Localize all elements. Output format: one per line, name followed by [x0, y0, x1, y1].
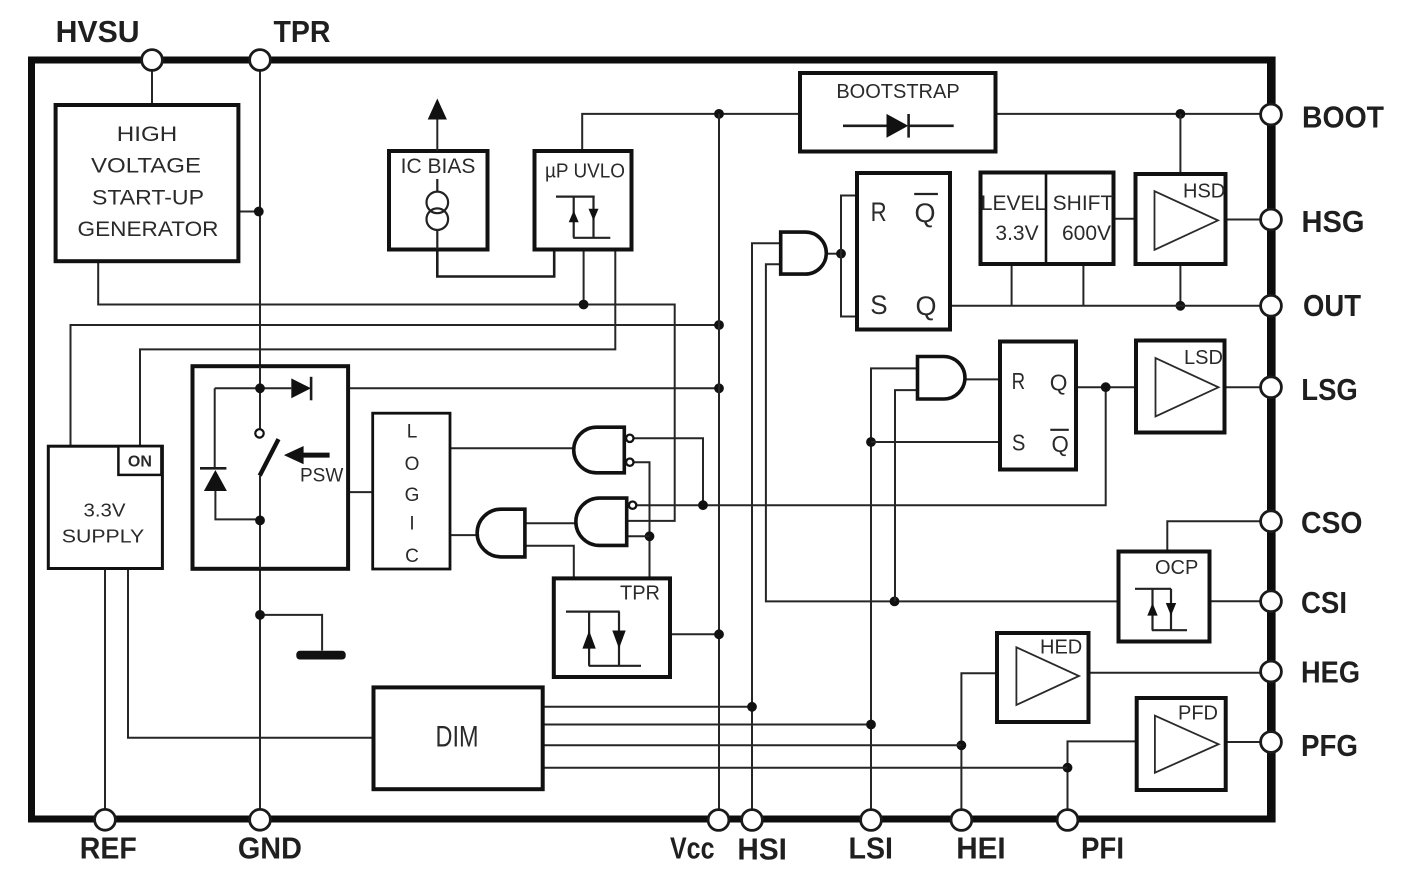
svg-text:TPR: TPR: [274, 14, 331, 49]
node: junction TPR output / Vcc vertical: [714, 629, 724, 639]
node: junction PFI vertical / DIM wire 4: [1063, 763, 1073, 773]
svg-text:LSI: LSI: [849, 831, 894, 866]
svg-text:OCP: OCP: [1155, 557, 1198, 579]
switch PSW: [255, 429, 263, 437]
wire: uP UVLO top to BOOTSTRAP input and BOOT line: [582, 114, 800, 151]
wire: DIM output 4 to PFI vertical: [543, 767, 1068, 769]
svg-text:PFD: PFD: [1178, 703, 1218, 725]
pin LSG: [1261, 372, 1358, 407]
svg-text:I: I: [409, 514, 414, 535]
svg-text:Q: Q: [916, 291, 937, 321]
wire: SHIFT to HSD: [1114, 218, 1136, 220]
svg-text:Q: Q: [915, 198, 936, 228]
wire: HEI pin vertical up to HED input: [961, 673, 997, 810]
node: junction DIM wire2 / LSI vertical: [866, 720, 876, 730]
pin REF: [80, 809, 137, 865]
op-amp buffer HED: [997, 633, 1089, 722]
diode D2: [843, 125, 954, 128]
svg-text:HIGH: HIGH: [117, 123, 178, 146]
wire: DIM output 2 to LSI vertical: [543, 724, 871, 726]
current source I1: [436, 179, 438, 192]
wire: PFD output to PFG pin: [1226, 741, 1261, 743]
svg-text:HSI: HSI: [737, 832, 787, 867]
wire: 3.3V supply to DIM input: [128, 569, 374, 738]
svg-text:HEG: HEG: [1301, 655, 1360, 690]
wire: LSD output to LSG pin: [1225, 386, 1262, 388]
svg-text:PFG: PFG: [1301, 728, 1358, 763]
wire: HED output to HEG pin: [1089, 672, 1262, 674]
block: 3.3V SUPPLY: [48, 446, 162, 568]
IC package border frame: [32, 60, 1273, 819]
svg-text:PFI: PFI: [1081, 831, 1124, 866]
wire: HSD bottom to OUT line: [1179, 264, 1181, 306]
gate: AND2: [918, 357, 965, 400]
pin HVSU: [56, 14, 163, 70]
svg-text:DIM: DIM: [436, 721, 479, 754]
gate: AND3: [781, 232, 827, 274]
wire: HVSU pin to generator: [151, 70, 153, 105]
svg-text:VOLTAGE: VOLTAGE: [91, 154, 201, 177]
node: junction uP UVLO / net A: [579, 300, 589, 310]
wire: AND2 input 2 vertical tap of net E: [895, 390, 918, 601]
pin CSI: [1261, 585, 1347, 620]
wire: DIM output 1 to HSI vertical: [543, 706, 752, 708]
node: junction BOOT wire / HSD top: [1176, 109, 1186, 119]
svg-text:G: G: [405, 485, 420, 506]
diode D1: [215, 387, 292, 389]
node: junction NAND2 lower pin / NAND1 bubble2 line: [645, 531, 655, 541]
svg-text:BOOT: BOOT: [1302, 100, 1384, 135]
svg-text:R: R: [871, 197, 887, 227]
node: junction zener return / GND net: [255, 516, 265, 526]
wire: ground branch from GND net: [260, 615, 322, 651]
wire: TPR/GND vertical net: [259, 70, 261, 429]
wire: NAND2 bubble output long run to LSD input node: [636, 387, 1106, 505]
block: HIGH VOLTAGE START-UP GENERATOR: [56, 105, 239, 261]
svg-text:Vcc: Vcc: [670, 831, 715, 866]
op-amp buffer PFD: [1137, 698, 1226, 790]
svg-text:S: S: [870, 290, 887, 320]
wire: uP UVLO bottom to net A: [583, 250, 585, 305]
wire: FF2 Q output to LSD input: [1076, 386, 1136, 388]
wire: DIM output 3 to HEI vertical: [543, 744, 962, 746]
node: junction OUT wire / HSD bottom: [1176, 301, 1186, 311]
wire: PSW diode output to Vcc vertical (net D): [348, 387, 719, 389]
wire: LOGIC to AND4 input: [450, 534, 478, 536]
wire: generator bottom to NAND2 right input (net A): [98, 261, 675, 521]
wire: AND4 bottom output to TPR top: [525, 546, 574, 579]
svg-text:R: R: [1012, 368, 1026, 394]
block: IC BIAS: [389, 99, 488, 250]
pin LSI: [849, 810, 894, 866]
zener diode Z1: [214, 388, 216, 467]
node: junction AND2 input2 tap / net E: [890, 597, 900, 607]
op-amp buffer HSD: [1136, 174, 1226, 264]
pin HEI: [951, 810, 1006, 866]
pin GND: [238, 809, 302, 865]
pin Vcc: [670, 810, 729, 866]
wire: 3.3V supply to REF pin: [104, 569, 106, 811]
svg-text:CSI: CSI: [1301, 585, 1347, 620]
wire: ON box top to uP UVLO bottom (net C): [140, 250, 615, 447]
svg-text:HSG: HSG: [1302, 204, 1365, 239]
block: PSW power switch: [193, 366, 349, 569]
arrow: IC BIAS output up: [436, 112, 438, 151]
wire: AND3 output to FF1 bracket: [826, 253, 841, 255]
wire: CSI net, AND3 input 2 down and across to OCP (net E): [766, 264, 1119, 601]
block: LEVEL 3.3V / SHIFT 600V: [981, 173, 1114, 265]
svg-text:TPR: TPR: [620, 583, 660, 605]
block: TPR comparator: [554, 578, 670, 677]
block: uP UVLO: [535, 151, 632, 250]
pin PFG: [1261, 728, 1358, 763]
pin TPR: [250, 14, 331, 70]
node: junction GND vertical / ground branch: [255, 610, 265, 620]
svg-text:LSD: LSD: [1184, 347, 1223, 369]
gate: NAND2 (mirrored, one inverted pin): [576, 498, 636, 545]
svg-text:SUPPLY: SUPPLY: [62, 527, 145, 547]
block: OCP: [1119, 552, 1210, 642]
svg-text:µP UVLO: µP UVLO: [545, 161, 625, 183]
svg-text:HVSU: HVSU: [56, 14, 140, 49]
gate: AND4 (mirrored): [477, 509, 525, 557]
svg-text:600V: 600V: [1062, 222, 1111, 245]
arrow: PSW actuator: [284, 446, 304, 464]
wire: NAND2 lower right pin: [627, 535, 650, 537]
wire: PSW box to LOGIC input: [348, 491, 373, 493]
node: junction generator/TPR net: [254, 207, 264, 217]
block: DIM: [374, 687, 543, 789]
svg-text:IC BIAS: IC BIAS: [401, 155, 476, 178]
wire: IC BIAS bottom to uP UVLO bottom: [437, 250, 554, 277]
wire: BOOTSTRAP output to BOOT pin: [996, 113, 1262, 115]
wire: generator right to TPR net: [238, 211, 260, 213]
wire: CSO pin to OCP top: [1167, 521, 1261, 551]
node: junction net B / Vcc vertical: [714, 320, 724, 330]
svg-text:3.3V: 3.3V: [995, 222, 1038, 245]
svg-text:HSD: HSD: [1183, 181, 1225, 203]
wire: HSD output to HSG pin: [1226, 219, 1262, 221]
wire: TPR output to Vcc vertical: [670, 633, 719, 635]
node: junction HEI vertical / DIM wire 3: [957, 740, 967, 750]
node: junction DIM wire1 / HSI vertical: [747, 702, 757, 712]
svg-text:Q: Q: [1050, 370, 1068, 396]
gate: NAND1 (mirrored, two inverted pins): [574, 427, 634, 473]
svg-text:PSW: PSW: [300, 466, 343, 487]
svg-text:GENERATOR: GENERATOR: [78, 218, 219, 241]
node: junction BOOT line / Vcc vertical: [714, 109, 724, 119]
node: junction diode / GND net: [255, 383, 265, 393]
block: RS flip-flop FF1: [857, 173, 950, 330]
wire: Vcc vertical line: [718, 114, 720, 810]
svg-text:LSG: LSG: [1301, 372, 1358, 407]
wire: FF1 R/S input bracket: [841, 196, 857, 317]
wire: 3.3V supply top to Vcc net (net B): [71, 325, 720, 446]
pin HSG: [1261, 204, 1365, 239]
svg-text:START-UP: START-UP: [92, 186, 204, 209]
block: BOOTSTRAP: [800, 73, 996, 152]
op-amp buffer LSD: [1136, 341, 1225, 433]
svg-text:S: S: [1012, 430, 1026, 456]
wire: AND4 top output to NAND2 left: [525, 522, 580, 524]
node: junction net D / Vcc vertical: [714, 383, 724, 393]
wire: LOGIC to NAND1 input: [450, 447, 578, 449]
wire: FF1 Q output, LEVEL/SHIFT bottoms, OUT pin line: [950, 305, 1261, 307]
svg-text:GND: GND: [238, 831, 302, 866]
svg-text:OUT: OUT: [1303, 288, 1361, 323]
block: RS flip-flop FF2: [1000, 342, 1076, 470]
wire: AND2 output to FF2 R: [965, 378, 1000, 380]
hysteresis symbol: [556, 197, 610, 238]
svg-text:Q: Q: [1052, 431, 1069, 457]
wire: HSI pin vertical up to AND3 input 1: [752, 243, 781, 810]
pin CSO: [1261, 505, 1363, 540]
svg-text:C: C: [405, 546, 419, 567]
wire: PFI pin vertical up to PFD input: [1068, 741, 1137, 810]
wire: LSI pin vertical up to AND2 input 1: [871, 368, 918, 810]
wire: NAND1 bubble1 to NAND2 output net: [633, 438, 703, 505]
node: junction NAND1 bubble1 line / NAND2 output run: [698, 500, 708, 510]
svg-text:REF: REF: [80, 831, 137, 866]
svg-text:HEI: HEI: [956, 831, 1006, 866]
node: junction LSI vertical / FF2 S wire: [866, 437, 876, 447]
wire: FF2 S input from LSI vertical: [871, 441, 1000, 443]
block: LOGIC: [373, 413, 450, 569]
svg-text:CSO: CSO: [1301, 505, 1363, 540]
svg-text:SHIFT: SHIFT: [1053, 192, 1114, 215]
svg-text:3.3V: 3.3V: [84, 501, 126, 521]
ground: [296, 651, 345, 660]
svg-text:BOOTSTRAP: BOOTSTRAP: [836, 81, 959, 103]
wire: OCP output to CSI pin: [1210, 600, 1262, 602]
pin HEG: [1261, 655, 1360, 690]
pin OUT: [1261, 288, 1361, 323]
svg-text:LEVEL: LEVEL: [981, 192, 1046, 215]
pin HSI: [737, 810, 787, 867]
svg-text:HED: HED: [1040, 637, 1082, 659]
svg-text:O: O: [405, 454, 420, 475]
wire: NAND1 bubble2 down to TPR top: [633, 462, 649, 578]
node: junction AND3 output / FF1 bracket: [836, 249, 846, 259]
pin BOOT: [1261, 100, 1384, 135]
pin PFI: [1057, 810, 1124, 866]
svg-text:ON: ON: [128, 454, 152, 471]
wire: HSD top supply from BOOT line: [1179, 114, 1181, 174]
node: junction FF2 Q wire / NAND2 run vertical: [1101, 382, 1111, 392]
svg-text:L: L: [407, 421, 418, 442]
wire: GND net through PSW box: [259, 366, 261, 569]
